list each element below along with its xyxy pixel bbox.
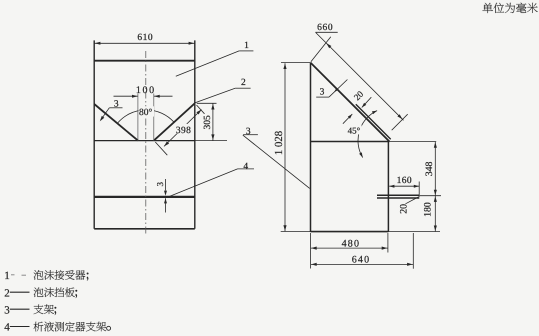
svg-text:1: 1 bbox=[244, 41, 249, 51]
svg-text:305: 305 bbox=[203, 115, 213, 129]
dimension 480 (box depth) bbox=[311, 233, 388, 269]
svg-text:2: 2 bbox=[4, 287, 10, 299]
svg-text:20: 20 bbox=[399, 204, 410, 214]
svg-text:80°: 80° bbox=[139, 108, 153, 118]
svg-text:3: 3 bbox=[320, 87, 325, 97]
legend line 3: support frame bbox=[4, 304, 56, 316]
dimension 100 (flat bottom of V) bbox=[114, 85, 173, 98]
inclined baffle main plate (45 deg) bbox=[311, 63, 390, 142]
svg-text:660: 660 bbox=[317, 23, 333, 33]
label: shelf thickness 20 bbox=[399, 196, 420, 213]
leader 2 (foam baffle) bbox=[195, 78, 251, 103]
svg-text:3: 3 bbox=[155, 182, 165, 187]
leader 1 (foam receiver) bbox=[176, 41, 254, 76]
dimension 160 (shelf length) bbox=[389, 176, 419, 195]
80 degree angle arc and label bbox=[117, 106, 174, 123]
note: units in millimetres bbox=[482, 3, 537, 13]
svg-text:3: 3 bbox=[246, 127, 251, 137]
V-shaped foam baffle plates bbox=[94, 103, 195, 140]
dimension 20 (gap of inclined plates) bbox=[343, 89, 371, 124]
dimension 640 (overall depth) bbox=[311, 233, 413, 269]
45 degree angle arc and label bbox=[346, 111, 377, 158]
leader 4 (drainage tester support) bbox=[168, 162, 254, 197]
svg-text:1 028: 1 028 bbox=[273, 131, 285, 155]
side view horizontal top of lower box bbox=[311, 141, 437, 143]
svg-text:4: 4 bbox=[243, 162, 248, 172]
leader 3 (support frame) bbox=[243, 127, 310, 189]
dimension 305 (V depth) bbox=[197, 103, 217, 140]
extension lines of 100 dimension bbox=[138, 94, 154, 141]
svg-text:348: 348 bbox=[424, 161, 435, 176]
legend line 1: foam receiver bbox=[4, 270, 88, 282]
svg-text:398: 398 bbox=[176, 126, 191, 136]
drainage tester support shelf (side view) bbox=[377, 195, 419, 198]
side view right wall of lower box bbox=[387, 142, 389, 232]
foam receiver outline (left view rectangle) bbox=[94, 40, 195, 228]
dimension 348 (top to shelf) bbox=[424, 142, 437, 196]
dimension 180 (shelf to bottom) bbox=[423, 196, 437, 231]
baffle shelf line across receiver bbox=[94, 140, 227, 142]
side view bottom bbox=[281, 231, 440, 233]
svg-text:1: 1 bbox=[4, 270, 10, 282]
svg-text:3: 3 bbox=[4, 304, 10, 316]
legend line 4: drainage tester support bbox=[4, 322, 110, 334]
dimension 398 (baffle slant length) bbox=[155, 105, 204, 155]
svg-text:160: 160 bbox=[397, 176, 412, 186]
dimension 1028 (total height) bbox=[273, 63, 287, 231]
svg-text:480: 480 bbox=[342, 238, 361, 249]
dimension 3 (support plate thickness, left view) bbox=[155, 179, 167, 213]
svg-text:640: 640 bbox=[352, 255, 371, 266]
svg-text:4: 4 bbox=[4, 322, 10, 334]
drainage-tester support plate (thick line) bbox=[94, 196, 195, 198]
svg-text:100: 100 bbox=[136, 85, 156, 96]
dimension 660 (inclined plate length) bbox=[311, 23, 408, 130]
top extension line (1028 dim) bbox=[281, 62, 311, 64]
svg-text:610: 610 bbox=[137, 33, 153, 43]
label: inclined plate thickness 3 (side view) bbox=[316, 80, 347, 98]
side view left wall bbox=[310, 63, 312, 232]
shelf level extension line bbox=[419, 195, 441, 197]
legend line 2: foam baffle bbox=[4, 287, 77, 299]
vertical centerline (dash-dot) bbox=[145, 51, 147, 236]
svg-text:180: 180 bbox=[423, 202, 434, 217]
label: baffle thickness 3 (left view) bbox=[100, 99, 123, 121]
svg-text:2: 2 bbox=[241, 78, 246, 88]
svg-text:45°: 45° bbox=[348, 126, 361, 136]
inclined baffle second plate bbox=[356, 104, 391, 139]
dimension 610 (top width) bbox=[94, 33, 195, 45]
